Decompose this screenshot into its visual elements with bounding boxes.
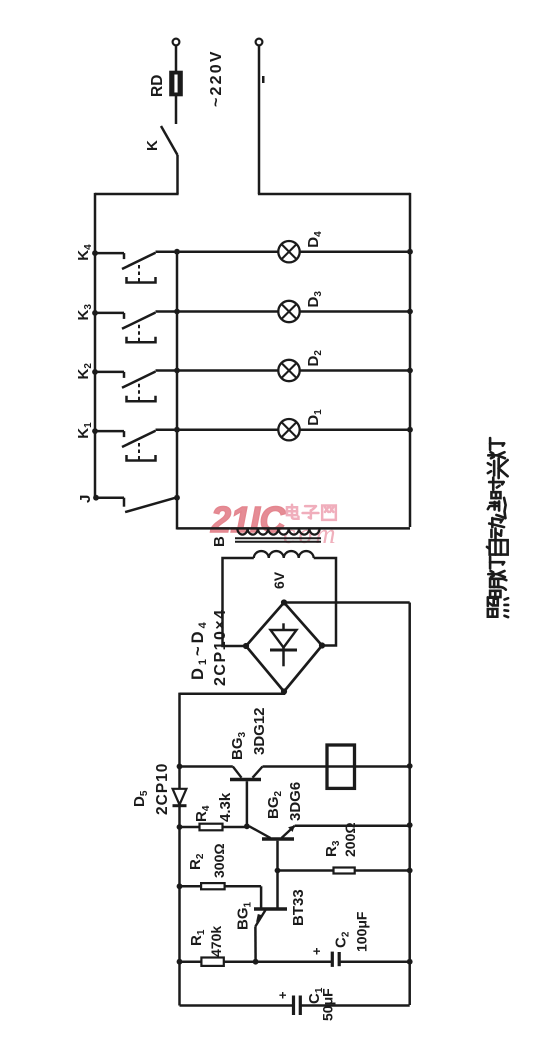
svg-text:BT33: BT33: [290, 889, 307, 926]
svg-text:470k: 470k: [208, 926, 224, 957]
svg-text:3DG6: 3DG6: [287, 782, 304, 821]
svg-text:6V: 6V: [271, 571, 287, 589]
svg-text:~220V: ~220V: [208, 49, 225, 107]
svg-text:J: J: [77, 495, 94, 503]
svg-text:2CP10×4: 2CP10×4: [212, 608, 229, 686]
svg-text:B: B: [211, 536, 228, 547]
svg-text:K: K: [144, 140, 161, 151]
svg-text:50μF: 50μF: [320, 988, 336, 1021]
svg-text:+: +: [309, 947, 324, 955]
svg-text:2CP10: 2CP10: [154, 763, 171, 815]
svg-text:200Ω: 200Ω: [342, 822, 358, 857]
svg-text:4.3k: 4.3k: [217, 792, 234, 822]
svg-text:+: +: [275, 991, 290, 999]
svg-text:300Ω: 300Ω: [211, 843, 227, 878]
svg-text:100μF: 100μF: [354, 911, 370, 952]
svg-text:3DG12: 3DG12: [251, 707, 268, 755]
svg-text:RD: RD: [149, 75, 166, 97]
